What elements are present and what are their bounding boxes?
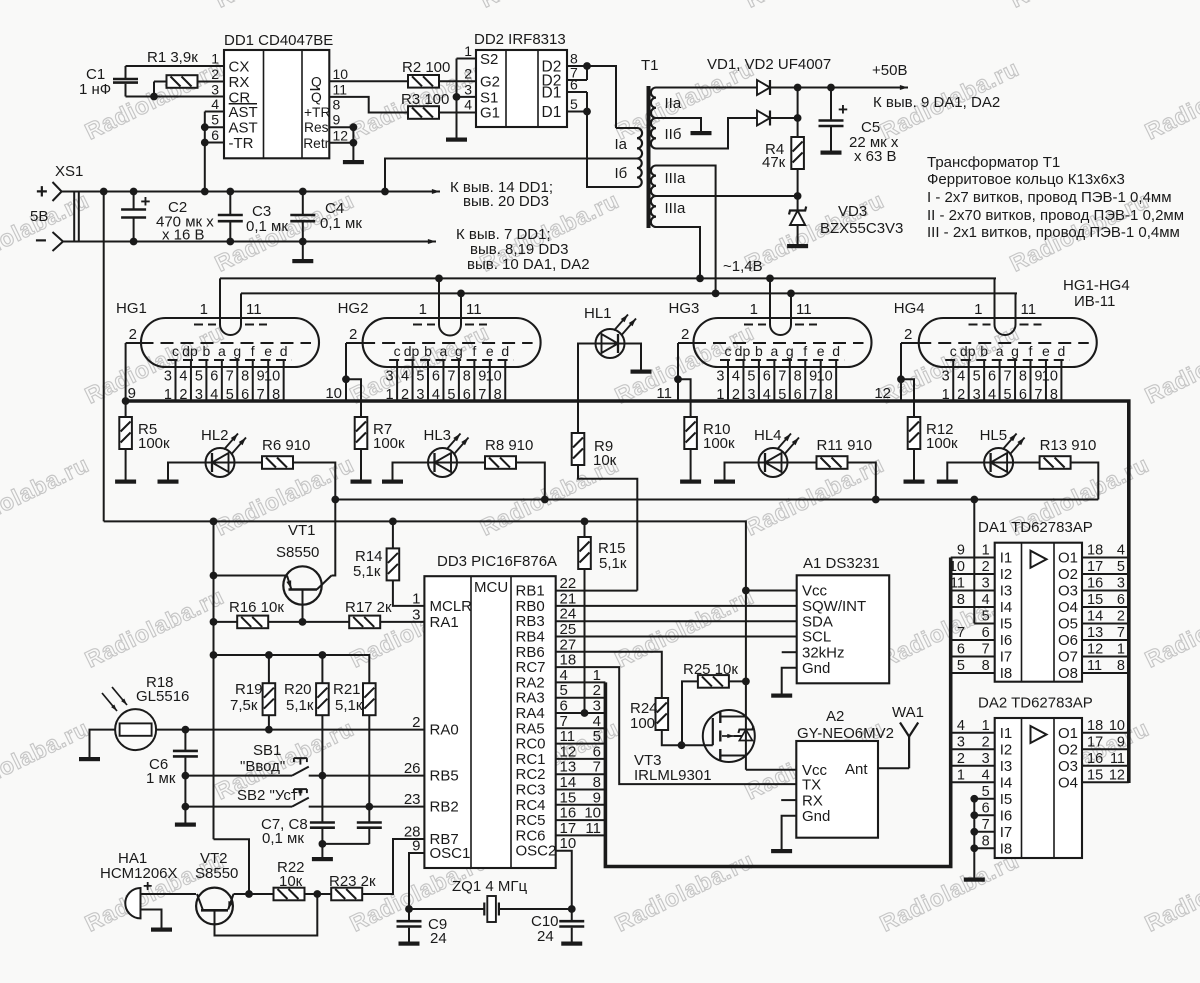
svg-text:"Ввод": "Ввод" — [240, 758, 285, 775]
svg-text:g: g — [1011, 343, 1019, 359]
wire A1 32kHz stub — [782, 651, 797, 653]
svg-text:2: 2 — [904, 326, 912, 343]
svg-text:OSC2: OSC2 — [516, 843, 557, 860]
capacitor C2 470мк x 16В — [133, 192, 135, 209]
svg-text:D1: D1 — [542, 85, 562, 102]
ground R10 — [680, 480, 701, 484]
svg-text:I4: I4 — [1000, 775, 1013, 792]
svg-text:выв. 10 DA1, DA2: выв. 10 DA1, DA2 — [467, 256, 590, 273]
svg-text:5: 5 — [957, 658, 965, 674]
wire II center tap to ground — [656, 118, 701, 131]
svg-text:IRLML9301: IRLML9301 — [634, 767, 712, 784]
wire D1 node to T1 Ib — [587, 112, 637, 188]
ground R5 — [115, 480, 136, 484]
svg-text:4: 4 — [1117, 543, 1125, 559]
wire R16 to base — [268, 621, 349, 623]
svg-text:b: b — [980, 343, 988, 359]
svg-text:I3: I3 — [1000, 758, 1013, 775]
capacitor C3 0,1мк — [229, 192, 231, 215]
wire HA1 bottom to ground — [141, 910, 162, 928]
resistor R7 100к — [360, 416, 362, 418]
wire Q to R2 — [329, 80, 408, 82]
wire +5V riser to T1 center tap — [385, 159, 637, 192]
wire DD3 RC0 to bus net 5 — [556, 743, 606, 745]
node minus rail junctions — [130, 238, 138, 246]
svg-text:3: 3 — [716, 369, 724, 385]
wire R1 right to RX — [198, 81, 225, 83]
ground C10 — [561, 942, 582, 946]
svg-text:6: 6 — [982, 800, 990, 816]
svg-text:выв. 20 DD3: выв. 20 DD3 — [463, 193, 549, 210]
svg-text:7: 7 — [1003, 369, 1011, 385]
svg-text:R8 910: R8 910 — [485, 437, 533, 454]
svg-text:5,1к: 5,1к — [599, 555, 627, 572]
svg-text:HG1: HG1 — [116, 300, 147, 317]
wire C7/C8 ground link — [322, 843, 369, 845]
svg-text:I1: I1 — [1000, 550, 1013, 567]
resistor R17 2к — [349, 616, 380, 629]
wire HG3 segment b pin 5 net 3 — [758, 360, 760, 401]
HG1 anode segments — [168, 359, 292, 361]
svg-text:RA1: RA1 — [430, 614, 459, 631]
svg-text:5В: 5В — [30, 208, 48, 225]
HG4 filament — [995, 325, 1016, 336]
svg-text:XS1: XS1 — [55, 163, 83, 180]
wire IIIa bottom lead to filament line A — [656, 227, 700, 278]
svg-text:6: 6 — [957, 642, 965, 658]
wire HG2 pin 1 — [438, 278, 440, 324]
svg-text:I7: I7 — [1000, 649, 1013, 666]
wire A1 Vcc — [746, 590, 797, 592]
svg-text:HCM1206X: HCM1206X — [100, 865, 178, 882]
wire VT2 base loop — [215, 894, 318, 936]
svg-text:3: 3 — [942, 369, 950, 385]
svg-text:7: 7 — [447, 369, 455, 385]
svg-text:HL2: HL2 — [201, 427, 229, 444]
wire RB2 net / SB2 — [185, 806, 292, 808]
svg-text:18: 18 — [1087, 718, 1103, 734]
svg-text:14: 14 — [1087, 609, 1103, 625]
svg-text:9: 9 — [957, 543, 965, 559]
wire IIIa top lead to filament line B — [656, 166, 716, 294]
wire HL1 anode — [578, 344, 596, 402]
svg-text:I4: I4 — [1000, 599, 1013, 616]
wire DD1 pin4,5,6 tie to +5V — [205, 111, 224, 113]
svg-text:b: b — [755, 343, 763, 359]
svg-text:I5: I5 — [1000, 616, 1013, 633]
zener VD3 BZX55C3V3 — [797, 196, 799, 244]
wire R14 to MCLR — [393, 580, 425, 606]
svg-text:1: 1 — [211, 51, 219, 67]
HG4 anode segments — [945, 359, 1069, 361]
svg-text:VD3: VD3 — [838, 203, 867, 220]
svg-text:R19: R19 — [235, 681, 263, 698]
svg-text:HL5: HL5 — [980, 427, 1008, 444]
wire HA1 top to VT2 collector — [141, 893, 197, 895]
ground R18 — [79, 757, 100, 761]
svg-text:D1: D1 — [542, 104, 562, 121]
wire DD2 D2 pins join — [567, 65, 587, 67]
svg-text:R6 910: R6 910 — [262, 437, 310, 454]
svg-text:III - 2х1 витков, провод ПЭВ-1: III - 2х1 витков, провод ПЭВ-1 0,4мм — [927, 224, 1180, 241]
wire filament line B — [241, 292, 1017, 294]
svg-text:Gnd: Gnd — [802, 808, 830, 825]
wire HG1 pin 1 — [219, 278, 221, 324]
wire HG2 segment e pin 9 net 7 — [489, 360, 491, 401]
wire R13 to LED line — [1071, 463, 1099, 500]
svg-text:10: 10 — [264, 369, 280, 385]
ground DD1 — [343, 160, 364, 164]
svg-text:26: 26 — [404, 760, 421, 777]
resistor R6 910 — [235, 462, 263, 464]
wire RA0 net — [156, 729, 424, 731]
svg-text:VD1, VD2 UF4007: VD1, VD2 UF4007 — [707, 56, 831, 73]
node C1/R1 — [150, 93, 158, 101]
svg-text:0,1 мк: 0,1 мк — [320, 215, 362, 232]
svg-text:e: e — [1042, 343, 1050, 359]
capacitor C9 24 — [408, 909, 410, 920]
wire DA2 I3 from net 2 — [951, 765, 995, 767]
wire HG1 pin 11 — [240, 293, 242, 324]
svg-text:2: 2 — [211, 66, 219, 82]
svg-text:15: 15 — [1087, 767, 1103, 783]
svg-text:I8: I8 — [1000, 841, 1013, 858]
svg-text:d: d — [1058, 343, 1066, 359]
HG3 anode segments — [720, 359, 844, 361]
svg-text:11: 11 — [246, 301, 262, 318]
resistor R12 100к — [913, 416, 915, 418]
wire DD1 pin9,12 to ground — [329, 126, 353, 128]
resistor R20 5,1к — [321, 655, 323, 684]
wire DD3 RA5 to bus net 4 — [556, 727, 606, 729]
HG3 grid pin 2 — [693, 342, 864, 344]
svg-text:10: 10 — [333, 66, 349, 82]
ground C5 — [821, 151, 842, 155]
wire R1 left lead — [153, 82, 155, 97]
svg-text:8: 8 — [333, 97, 341, 113]
wire HG3 segment a pin 6 net 4 — [773, 360, 775, 401]
wire HG2 segment g pin 7 net 5 — [458, 360, 460, 401]
svg-text:G2: G2 — [480, 73, 500, 90]
svg-text:I - 2х7 витков, провод ПЭВ-1 0: I - 2х7 витков, провод ПЭВ-1 0,4мм — [927, 189, 1172, 206]
wire VT3 source/drain vertical — [745, 681, 747, 769]
svg-text:6: 6 — [763, 369, 771, 385]
wire R4 bottom — [797, 169, 799, 196]
wire HG4 segment e pin 9 net 7 — [1045, 360, 1047, 401]
wire HG4 pin 11 — [1015, 293, 1017, 324]
ground DD2 S pins — [446, 138, 467, 142]
svg-text:e: e — [817, 343, 825, 359]
svg-text:e: e — [264, 343, 272, 359]
ground button chain — [175, 823, 196, 827]
svg-text:2: 2 — [681, 326, 689, 343]
svg-text:2: 2 — [982, 734, 990, 750]
svg-text:9: 9 — [1117, 734, 1125, 750]
ground DA2 inputs — [964, 878, 985, 882]
svg-text:R20: R20 — [284, 681, 312, 698]
pull-up rail R19-R21 — [214, 654, 364, 656]
wire R25 left to gate node — [682, 681, 698, 745]
resistor R15 5,1к — [584, 521, 586, 537]
ground HA1 — [151, 928, 172, 932]
svg-text:1: 1 — [974, 301, 982, 318]
wire IIb bottom to VD2 — [656, 118, 757, 149]
ground VD3 — [787, 244, 808, 248]
svg-text:1: 1 — [419, 301, 427, 318]
svg-text:4: 4 — [464, 97, 472, 113]
resistor R13 910 — [1013, 462, 1040, 464]
svg-text:R16 10к: R16 10к — [229, 599, 284, 616]
wire DA2 I5-I8 tie to ground — [974, 798, 994, 800]
node HG1 grid/R5 bus junction — [122, 397, 130, 405]
wire DD3 RA3 to bus net 2 — [556, 697, 606, 699]
svg-text:10: 10 — [1042, 369, 1058, 385]
svg-text:3: 3 — [211, 81, 219, 97]
svg-text:HG2: HG2 — [338, 300, 369, 317]
wire HG4 grid tap net 12 — [900, 343, 902, 401]
svg-text:O7: O7 — [1058, 649, 1078, 666]
wire DA1 I5 from LED line — [974, 623, 994, 625]
svg-text:5: 5 — [195, 369, 203, 385]
svg-text:8: 8 — [463, 369, 471, 385]
wire HL5 cathode to ground — [947, 463, 984, 480]
wire OSC2 to crystal — [556, 851, 572, 909]
wire HG4 segment f pin 8 net 6 — [1030, 360, 1032, 401]
svg-text:R11 910: R11 910 — [817, 437, 873, 454]
svg-text:O4: O4 — [1058, 599, 1078, 616]
wire HG3 pin 11 — [790, 293, 792, 324]
wire RB4 to SCL — [556, 636, 797, 638]
wire R3 to G1 — [439, 112, 476, 114]
wire line1 to DA1 I5 — [973, 500, 975, 624]
wire IIIa center tap to R4/VD3 node — [656, 195, 798, 197]
wire DA2 I2 from net 3 — [951, 748, 995, 750]
svg-text:1: 1 — [464, 43, 472, 59]
svg-text:х 63 В: х 63 В — [854, 148, 897, 165]
svg-text:47к: 47к — [762, 154, 786, 171]
svg-text:HG4: HG4 — [894, 300, 925, 317]
wire D2 node to T1 Ia — [587, 66, 616, 128]
ground HL4 — [714, 480, 735, 484]
wire HG1 segment dp pin 4 net 2 — [190, 360, 192, 401]
wire HG3 segment d pin 10 net 8 — [835, 360, 837, 401]
svg-text:MCLR: MCLR — [430, 598, 473, 615]
wire DD3 RC6 to bus net 11 — [556, 834, 606, 836]
svg-text:11: 11 — [796, 301, 812, 318]
HG1 filament — [220, 325, 241, 336]
svg-text:3: 3 — [957, 734, 965, 750]
svg-text:24: 24 — [537, 928, 554, 945]
wire HG1 segment f pin 8 net 6 — [252, 360, 254, 401]
svg-text:7: 7 — [982, 642, 990, 658]
wire R22-R23 — [305, 893, 332, 895]
HG2 anode segments — [389, 359, 513, 361]
svg-text:4: 4 — [957, 718, 965, 734]
svg-text:IIIa: IIIa — [665, 200, 687, 217]
svg-text:4: 4 — [982, 767, 990, 783]
svg-text:g: g — [786, 343, 794, 359]
svg-text:2: 2 — [349, 326, 357, 343]
svg-text:+: + — [838, 100, 848, 119]
svg-text:1: 1 — [982, 718, 990, 734]
svg-text:2: 2 — [464, 65, 472, 81]
svg-text:100: 100 — [630, 715, 655, 732]
ground A1 — [771, 694, 792, 698]
resistor R11 910 — [788, 462, 817, 464]
svg-text:A2: A2 — [826, 708, 844, 725]
svg-text:8: 8 — [1019, 369, 1027, 385]
svg-text:I7: I7 — [1000, 824, 1013, 841]
svg-text:6: 6 — [211, 127, 219, 143]
svg-text:b: b — [424, 343, 432, 359]
svg-text:I6: I6 — [1000, 808, 1013, 825]
svg-text:R2 100: R2 100 — [402, 59, 450, 76]
VT3 body diode — [739, 730, 752, 741]
svg-text:7: 7 — [778, 369, 786, 385]
wire HG3 segment c pin 3 net 1 — [727, 360, 729, 401]
wire DA2 I1 from net 4 — [951, 732, 995, 734]
svg-text:11: 11 — [1021, 301, 1037, 318]
ground HL5 — [937, 480, 958, 484]
svg-text:12: 12 — [333, 127, 349, 143]
svg-text:100к: 100к — [373, 435, 405, 452]
svg-text:IIa: IIa — [665, 95, 682, 112]
transformer T1 winding IIIa upper — [651, 166, 656, 197]
svg-text:5,1к: 5,1к — [286, 697, 314, 714]
svg-text:8: 8 — [794, 369, 802, 385]
svg-text:O6: O6 — [1058, 632, 1078, 649]
resistor R2 100 — [408, 75, 439, 88]
ground HL3 — [382, 480, 403, 484]
svg-text:1: 1 — [750, 301, 758, 318]
svg-text:6: 6 — [432, 369, 440, 385]
svg-text:1 нФ: 1 нФ — [79, 81, 111, 98]
svg-text:a: a — [996, 343, 1004, 359]
svg-text:O2: O2 — [1058, 566, 1078, 583]
svg-text:4: 4 — [732, 369, 740, 385]
svg-text:G1: G1 — [480, 105, 500, 122]
svg-text:6: 6 — [988, 369, 996, 385]
svg-text:O3: O3 — [1058, 583, 1078, 600]
wire C1 bottom to node — [126, 96, 225, 98]
svg-text:DA2 TD62783AP: DA2 TD62783AP — [978, 695, 1093, 712]
wire CX pin1 — [126, 65, 225, 67]
svg-text:3: 3 — [982, 751, 990, 767]
svg-text:1: 1 — [982, 543, 990, 559]
svg-text:8: 8 — [241, 369, 249, 385]
wire R17 to RA1 — [380, 621, 424, 623]
HG2 grid pin 2 — [362, 342, 532, 344]
wire HG2 segment f pin 8 net 6 — [473, 360, 475, 401]
wire base rail — [214, 621, 238, 623]
svg-text:5,1к: 5,1к — [353, 563, 381, 580]
wire HL3 cathode to ground — [393, 463, 429, 480]
svg-text:+50В: +50В — [872, 62, 907, 79]
svg-text:1: 1 — [1117, 642, 1125, 658]
svg-text:a: a — [770, 343, 778, 359]
svg-text:17: 17 — [1087, 734, 1103, 750]
svg-text:DD3 PIC16F876A: DD3 PIC16F876A — [437, 553, 557, 570]
svg-text:11: 11 — [1087, 658, 1102, 674]
svg-text:2: 2 — [129, 326, 137, 343]
node R22/R23/base — [313, 890, 321, 898]
svg-text:18: 18 — [1087, 543, 1103, 559]
wire HG4 segment d pin 10 net 8 — [1060, 360, 1062, 401]
wire VD2 out — [770, 117, 798, 119]
wire VT1 emitter to +5V — [214, 575, 288, 577]
svg-text:10к: 10к — [279, 873, 303, 890]
svg-text:6: 6 — [982, 625, 990, 641]
svg-text:8: 8 — [1117, 658, 1125, 674]
ground R12 — [904, 480, 925, 484]
wire R15 to RA4 net — [584, 569, 586, 713]
transformer T1 winding IIa — [651, 88, 656, 119]
svg-text:2: 2 — [412, 714, 420, 731]
wire VT2 emitter node to R22 — [234, 893, 274, 895]
svg-text:RX: RX — [229, 74, 250, 91]
svg-text:~1,4В: ~1,4В — [723, 258, 763, 275]
svg-text:+: + — [141, 192, 151, 211]
svg-text:IIб: IIб — [665, 126, 682, 143]
resistor R14 5,1к — [392, 521, 394, 548]
wire HG1 segment e pin 9 net 7 — [267, 360, 269, 401]
wire HG1 segment d pin 10 net 8 — [283, 360, 285, 401]
wire DD3 RC4 to bus net 9 — [556, 804, 606, 806]
svg-text:5,1к: 5,1к — [335, 697, 363, 714]
svg-text:Ant: Ant — [845, 761, 868, 778]
svg-text:2: 2 — [1117, 609, 1125, 625]
svg-text:Т1: Т1 — [641, 57, 659, 74]
svg-text:R23 2к: R23 2к — [329, 873, 376, 890]
svg-text:I2: I2 — [1000, 742, 1013, 759]
wire HG2 segment dp pin 4 net 2 — [412, 360, 414, 401]
svg-text:GL5516: GL5516 — [136, 688, 189, 705]
svg-text:32kHz: 32kHz — [802, 644, 845, 661]
svg-text:5: 5 — [982, 609, 990, 625]
svg-text:O4: O4 — [1058, 775, 1078, 792]
HG1 grid pin 2 — [141, 342, 312, 344]
svg-text:10: 10 — [486, 369, 502, 385]
svg-text:6: 6 — [570, 77, 578, 93]
svg-text:R13 910: R13 910 — [1040, 437, 1097, 454]
svg-text:100к: 100к — [926, 435, 958, 452]
resistor R8 910 — [457, 462, 485, 464]
transformer T1 winding IIIa lower — [651, 196, 656, 227]
svg-text:dp: dp — [404, 343, 420, 359]
transformer T1 winding Ia — [637, 128, 642, 159]
wire R11 to LED line — [848, 463, 876, 500]
svg-text:DA1 TD62783AP: DA1 TD62783AP — [978, 519, 1093, 536]
svg-text:16: 16 — [1087, 751, 1103, 767]
svg-text:Ia: Ia — [615, 136, 628, 153]
svg-text:11: 11 — [1110, 751, 1125, 767]
svg-text:100к: 100к — [138, 435, 170, 452]
svg-text:3: 3 — [982, 576, 990, 592]
wire A2 RX stub — [781, 799, 796, 801]
capacitor C5 22мк x 63В — [827, 84, 835, 92]
wire HG3 segment f pin 8 net 6 — [804, 360, 806, 401]
svg-text:4: 4 — [179, 369, 187, 385]
svg-text:12: 12 — [1109, 767, 1125, 783]
ground T1 II tap — [691, 131, 712, 135]
svg-text:9: 9 — [333, 112, 341, 128]
svg-text:7: 7 — [1117, 625, 1125, 641]
wire DA1 I7 from net 6 — [951, 656, 995, 658]
wire HG4 segment b pin 5 net 3 — [983, 360, 985, 401]
resistor R4 47к — [797, 118, 799, 137]
svg-text:8: 8 — [982, 658, 990, 674]
svg-text:1: 1 — [200, 301, 208, 318]
